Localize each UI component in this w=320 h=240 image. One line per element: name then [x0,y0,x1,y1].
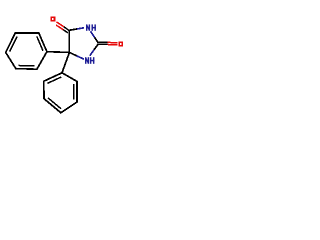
atom label N3: letter H [92,24,96,30]
double bond C4=O1 (inner line) [63,30,68,33]
atom label N3: letter N [86,24,90,30]
double bond C2=O2 [99,41,108,43]
benzene ring 1 (left phenyl) outline [6,33,47,69]
bond N1-C5 [77,56,84,59]
ring2 inner double bond TL2-T2 [47,77,61,83]
ring1 inner double bond L-TL [10,37,17,52]
ring2 inner double bond TR2-BR2 [73,84,75,100]
atom label N1: letter H [90,57,95,64]
benzene ring 2 (bottom phenyl) outline [44,73,77,113]
bond N3-C2 [91,31,95,37]
atom label O1 (red O) [50,16,55,21]
chemical structure drawing: phenytoin [0,0,130,130]
double bond C4=O1 (axis line) [64,27,69,31]
atom label N1: letter N [85,57,89,64]
ring2 inner double bond B2-BL2 [48,98,61,109]
ring1 inner double bond BR-BL [18,64,34,66]
bond C2-N1 [94,44,98,50]
bond C5 to ring2 [62,52,69,72]
atom label O2 (red O) [118,41,123,46]
bond C4-N3 [69,29,77,30]
bond C5 to ring1 [47,51,70,54]
bond C5-C4 [68,30,70,52]
ring1 inner double bond TR-R [37,36,43,50]
